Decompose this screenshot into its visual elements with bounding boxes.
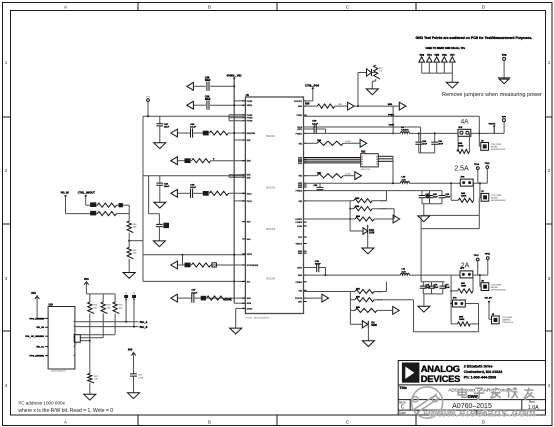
svg-text:3V3: 3V3 xyxy=(84,278,89,281)
capacitor C2 label xyxy=(205,96,211,102)
wire VOUT3 corner xyxy=(480,275,481,286)
capacitor C1 label xyxy=(205,77,211,83)
capacitor C17 xyxy=(420,282,427,294)
resistor R7 xyxy=(317,141,343,145)
svg-text:TP11: TP11 xyxy=(485,163,491,165)
svg-text:VREG: VREG xyxy=(247,105,253,107)
svg-text:4A: 4A xyxy=(460,119,469,126)
svg-text:SS12: SS12 xyxy=(247,193,252,195)
resistor R38 value xyxy=(338,104,342,106)
svg-text:EN3: EN3 xyxy=(247,161,251,163)
connector J4 label xyxy=(492,314,495,316)
ground U1 xyxy=(230,328,242,334)
capacitor C4 label xyxy=(190,123,196,129)
power VDD label xyxy=(31,292,36,295)
wire BST1 stub xyxy=(304,129,326,133)
svg-text:PVIN1: PVIN1 xyxy=(247,101,252,103)
svg-text:FB2: FB2 xyxy=(299,176,302,178)
inductor L1 xyxy=(400,132,409,134)
text 2.5A xyxy=(454,166,469,173)
wire rnet row1 xyxy=(80,334,115,336)
wire PGOOD row xyxy=(304,297,322,299)
resistor R6 xyxy=(374,65,380,79)
junction 4V5DL_VID xyxy=(233,77,235,79)
connector J4 xyxy=(492,316,500,324)
svg-text:VPG_SENSE3: VPG_SENSE3 xyxy=(29,318,44,320)
svg-text:0.1uF: 0.1uF xyxy=(138,377,144,379)
note GND test points xyxy=(416,36,533,40)
wire SW3 rail xyxy=(304,182,488,184)
svg-text:B: B xyxy=(208,5,211,10)
wire row B1 xyxy=(178,192,245,194)
junction CTRL_IN xyxy=(85,195,87,197)
test point TP16 xyxy=(132,293,136,300)
node VOUT1 label xyxy=(489,123,497,125)
wire fb return xyxy=(414,300,479,332)
note I2C address xyxy=(18,400,65,405)
resistor R9 xyxy=(317,174,343,178)
wire SW1 cont xyxy=(354,105,399,107)
inductor L3 label xyxy=(402,269,407,274)
resistor R26 label xyxy=(94,376,99,381)
resistor R12 label xyxy=(355,205,360,208)
resistor R11 xyxy=(350,199,372,203)
junction C11 xyxy=(434,132,436,134)
title block frame xyxy=(398,361,545,416)
node PWR_ON label xyxy=(140,326,148,329)
resistor R19 row xyxy=(97,203,129,207)
junction chain branch xyxy=(128,240,130,242)
resistor R38 xyxy=(317,104,334,108)
resistor R20 row xyxy=(97,212,129,216)
resistor R20 label xyxy=(90,211,96,216)
U1 left pins xyxy=(242,101,259,311)
wire R11 tail xyxy=(372,191,386,201)
wire TP1 drop xyxy=(147,102,149,117)
wire R12 tail xyxy=(372,209,394,219)
connector J3 text xyxy=(491,284,506,291)
svg-text:3V3: 3V3 xyxy=(128,348,133,351)
wire rail low xyxy=(143,280,245,282)
watermark stamp circle xyxy=(412,387,443,418)
ground C5 xyxy=(154,202,166,208)
watermark CJK characters xyxy=(458,387,534,398)
op-amp U3 body xyxy=(48,307,75,370)
capacitor C9 label xyxy=(312,121,318,126)
svg-text:ADP5054ACPZ: ADP5054ACPZ xyxy=(254,316,270,319)
junction TP1-rail xyxy=(147,115,149,117)
svg-text:SW2: SW2 xyxy=(298,163,302,165)
svg-text:CTRL_PG4: CTRL_PG4 xyxy=(305,84,320,88)
text 4A xyxy=(460,119,469,126)
capacitor C17 label xyxy=(425,285,430,290)
port arrow PGOOD xyxy=(322,294,329,302)
svg-text:47uF: 47uF xyxy=(433,195,438,198)
capacitor C18 label xyxy=(434,285,439,290)
resistor R18 row xyxy=(350,308,392,312)
node CTRL_IN label xyxy=(78,191,96,195)
port arrow SW1a xyxy=(348,102,355,110)
svg-text:10K: 10K xyxy=(94,379,98,381)
node SW1 label xyxy=(388,104,393,106)
power V3P3 label xyxy=(84,278,89,281)
svg-text:D: D xyxy=(482,419,485,424)
capacitor C16 label xyxy=(315,260,321,266)
wire BST4 stub xyxy=(304,268,326,276)
svg-text:A: A xyxy=(64,419,67,424)
jumper JP4 label xyxy=(453,298,458,300)
svg-text:TP8: TP8 xyxy=(502,54,507,57)
connector J3 xyxy=(481,283,489,291)
wire R16 tail xyxy=(374,282,386,292)
node PG_IN label xyxy=(61,191,69,195)
junction T1-bus xyxy=(233,85,235,87)
resistor R13 label xyxy=(356,216,361,218)
resistor R5 label xyxy=(201,296,206,301)
op-amp U2 body xyxy=(361,154,379,167)
wire pin to bus low xyxy=(234,302,245,304)
svg-text:EN5: EN5 xyxy=(247,177,251,179)
svg-text:VDRV: VDRV xyxy=(247,254,253,256)
svg-text:0.1uF: 0.1uF xyxy=(190,127,196,129)
wire TP9 xyxy=(503,122,505,134)
resistor R2 label xyxy=(185,158,191,163)
resistor R3 xyxy=(209,191,228,195)
wire IC agnd xyxy=(236,308,246,328)
svg-text:PG_IN: PG_IN xyxy=(61,191,69,195)
U1 right pins xyxy=(294,101,307,304)
resistor R25 label xyxy=(119,305,124,310)
test point TP9 xyxy=(502,119,505,122)
U3 refdes xyxy=(49,303,54,306)
svg-text:TP13: TP13 xyxy=(485,254,491,256)
wire U2 out riser xyxy=(392,156,394,183)
svg-text:COMP3: COMP3 xyxy=(295,219,302,221)
resistor R19b label xyxy=(459,316,465,321)
watermark url xyxy=(427,408,536,420)
wire FB1S sense xyxy=(304,126,421,128)
wire bus stub pin xyxy=(234,139,245,141)
capacitor C11 xyxy=(431,133,438,153)
svg-text:47uF: 47uF xyxy=(445,286,450,289)
resistor R8 xyxy=(457,149,470,153)
junction low-bus xyxy=(233,280,235,282)
wire cap gnd bus ch2 xyxy=(422,204,442,216)
svg-text:10.0K: 10.0K xyxy=(345,174,351,176)
resistor R23 xyxy=(88,294,94,374)
jumper JP1 xyxy=(458,129,471,136)
junction C16-rail xyxy=(325,274,327,276)
svg-text:PVIN1: PVIN1 xyxy=(388,114,395,116)
ground chain xyxy=(123,273,135,279)
jumper JP2 xyxy=(460,179,473,186)
resistor R18 label xyxy=(356,307,361,309)
inductor L3 xyxy=(400,273,409,275)
svg-text:www.elecfans.com: www.elecfans.com xyxy=(427,408,536,420)
capacitor C4 xyxy=(191,128,193,137)
svg-text:10K: 10K xyxy=(93,307,97,309)
svg-text:10K: 10K xyxy=(133,227,137,229)
svg-text:5.6V: 5.6V xyxy=(369,232,374,235)
resistor R21 xyxy=(127,221,133,233)
svg-text:2 Elizabeth Drive: 2 Elizabeth Drive xyxy=(464,364,493,368)
svg-text:PGND1: PGND1 xyxy=(296,133,303,135)
title label xyxy=(399,386,407,390)
document number xyxy=(452,403,492,410)
wire TP10 drop xyxy=(477,170,479,184)
svg-text:FB1: FB1 xyxy=(299,143,302,145)
svg-text:BUCK1: BUCK1 xyxy=(267,134,276,138)
svg-text:0.1uF: 0.1uF xyxy=(312,123,318,125)
wire VIN bus vertical xyxy=(233,78,235,303)
wire chain tail xyxy=(128,259,130,273)
resistor R13 xyxy=(355,217,374,221)
wire chain mid xyxy=(128,233,130,248)
resistor R2 xyxy=(192,159,211,163)
port arrow COMP xyxy=(393,215,400,223)
capacitor C5 label xyxy=(164,183,170,189)
resistor R10 loop xyxy=(450,182,473,200)
capacitor C13 label xyxy=(425,194,430,199)
port arrow FB1 xyxy=(360,139,367,147)
test point TP14 xyxy=(485,297,493,303)
svg-text:SW3: SW3 xyxy=(298,187,302,189)
svg-text:SS3: SS3 xyxy=(247,222,251,224)
svg-text:DNI: DNI xyxy=(338,104,342,106)
svg-text:PGOOD: PGOOD xyxy=(295,298,303,300)
wire PWR_ON xyxy=(75,326,139,328)
wire FB2 row xyxy=(304,175,355,177)
svg-text:10.0K: 10.0K xyxy=(377,300,383,302)
svg-text:TSW-102-07: TSW-102-07 xyxy=(502,322,514,324)
capacitor C11 label xyxy=(438,140,443,146)
diode D1 wire xyxy=(372,72,376,74)
junction C1-bus xyxy=(233,254,235,256)
wire FB4 stub xyxy=(304,291,356,293)
resistor R23 label xyxy=(93,305,98,310)
test point TP12 xyxy=(474,255,480,261)
svg-text:3V3: 3V3 xyxy=(31,292,36,295)
wire T1 xyxy=(194,85,234,87)
connector J1 text xyxy=(491,144,506,151)
svg-text:HS_BT: HS_BT xyxy=(485,297,493,299)
wire bus stub pin200 xyxy=(234,200,245,202)
capacitor C21 label xyxy=(138,375,144,380)
svg-text:22uF: 22uF xyxy=(164,127,170,129)
capacitor C19 xyxy=(439,282,446,294)
svg-text:PG34: PG34 xyxy=(297,226,302,228)
wire C7 branch xyxy=(149,176,160,214)
capacitor C15 xyxy=(439,191,446,204)
svg-text:SCL: SCL xyxy=(247,281,251,283)
capacitor C6 xyxy=(191,189,193,198)
jumper JP1 label xyxy=(458,127,463,129)
wire PGND4 left rail xyxy=(421,229,444,282)
U1 bracket pins EN xyxy=(229,175,245,178)
U3 pin numbers xyxy=(73,321,74,356)
node FB1S label xyxy=(389,125,395,127)
svg-text:C: C xyxy=(346,5,349,10)
ground C7 xyxy=(153,241,165,247)
svg-text:AVIN: AVIN xyxy=(247,302,252,305)
capacitor C2 xyxy=(207,101,209,110)
port arrow P4 xyxy=(171,157,178,165)
wire PWR_FLT xyxy=(75,321,139,323)
capacitor C1 xyxy=(207,82,209,91)
svg-text:BUCK2: BUCK2 xyxy=(267,186,276,190)
resistor R22 label xyxy=(133,250,138,255)
wire TP8 to ground xyxy=(503,60,505,78)
ground for TP bus xyxy=(446,82,458,88)
wire left rail vertical xyxy=(142,116,144,281)
resistor R4 xyxy=(192,263,211,267)
capacitor C18 xyxy=(428,282,435,294)
svg-text:GRN: GRN xyxy=(371,324,377,327)
svg-text:VPG_SENSE5: VPG_SENSE5 xyxy=(29,356,44,358)
svg-text:FB4: FB4 xyxy=(299,290,302,292)
capacitor C16 xyxy=(317,263,319,272)
svg-text:U1: U1 xyxy=(246,93,250,97)
capacitor C9 xyxy=(314,124,316,133)
svg-text:ADM1166ACPZ: ADM1166ACPZ xyxy=(51,370,66,373)
svg-text:100K: 100K xyxy=(461,286,466,288)
node PWR_FLT label xyxy=(140,321,148,324)
wire row A1 xyxy=(178,132,245,134)
capacitor C21 xyxy=(130,374,137,393)
LED D2 label xyxy=(371,322,377,328)
wire T2 xyxy=(194,104,245,106)
wire VOUT1 top corner xyxy=(478,116,480,146)
svg-text:TP12: TP12 xyxy=(474,255,480,257)
wire SDA tp drop xyxy=(125,299,127,322)
op-amp U1 body xyxy=(245,97,303,314)
ferrite FB2 xyxy=(119,203,123,207)
svg-text:SS4: SS4 xyxy=(247,239,251,241)
jumper JP4 xyxy=(453,300,466,307)
svg-text:VDL_HC_SENSE2: VDL_HC_SENSE2 xyxy=(25,336,44,338)
svg-text:GND Test Points are scattered: GND Test Points are scattered on PCB for… xyxy=(416,36,533,40)
note used on all TPs xyxy=(426,47,466,50)
resistor network box xyxy=(74,335,80,346)
connector J1 xyxy=(481,143,489,151)
resistor R2 value xyxy=(213,158,215,160)
wire fb riser xyxy=(349,292,351,311)
resistor R8 label xyxy=(458,142,463,148)
resistor R11 label xyxy=(355,197,360,200)
junction SDA xyxy=(125,321,127,323)
port arrow FB2 xyxy=(355,172,362,180)
svg-text:0039281023-ND: 0039281023-ND xyxy=(491,149,506,151)
test point TP9 label xyxy=(502,116,507,118)
wire SW4 rail xyxy=(304,274,488,276)
port arrow P1 xyxy=(187,82,194,90)
sheet title xyxy=(448,388,517,400)
svg-text:PVIN3: PVIN3 xyxy=(247,118,252,120)
junction A1-bus xyxy=(233,132,235,134)
svg-text:TP10: TP10 xyxy=(474,164,480,166)
wire row C1 xyxy=(178,264,245,266)
power VCAP label xyxy=(128,348,133,351)
svg-text:A: A xyxy=(64,5,67,10)
svg-text:PAL_A: PAL_A xyxy=(140,321,148,324)
svg-text:COMP4: COMP4 xyxy=(295,222,302,224)
wire LED branch xyxy=(350,310,362,324)
wire R26 tail xyxy=(89,383,91,394)
U1 bracket pins PVIN xyxy=(229,115,245,121)
ferrite bead FB1 xyxy=(212,263,217,267)
port arrow P7 xyxy=(171,294,178,302)
wire PVIN1 rail xyxy=(304,115,480,117)
junction B1-bus xyxy=(233,175,235,177)
svg-text:VOS1: VOS1 xyxy=(389,125,395,127)
node PVIN1 label xyxy=(388,114,395,116)
wire comp stub2 xyxy=(304,218,356,220)
wire SW1 to L1 xyxy=(392,106,394,134)
svg-text:Title: Title xyxy=(399,386,407,390)
junction SCL xyxy=(133,326,135,328)
wire JP4 feed xyxy=(450,275,452,324)
jumper JP3 label xyxy=(460,268,465,270)
resistor R9 value xyxy=(345,174,351,176)
U2 pin numbers xyxy=(361,156,377,164)
resistor R12 value xyxy=(381,209,387,211)
resistor R5 xyxy=(207,296,226,300)
svg-text:0.56uH: 0.56uH xyxy=(401,130,409,132)
svg-text:D: D xyxy=(482,5,485,10)
connector J1 label xyxy=(481,140,484,142)
resistor R16 value xyxy=(377,292,383,294)
connector J3 label xyxy=(481,280,484,282)
svg-text:47uF: 47uF xyxy=(438,142,443,145)
svg-text:47uF: 47uF xyxy=(422,142,427,145)
text 2A xyxy=(461,262,470,269)
wire gnd test point bus xyxy=(422,73,453,82)
power V3P3 arrow xyxy=(84,282,88,294)
resistor R8 loop xyxy=(458,133,469,151)
resistor R38 label xyxy=(305,103,310,106)
svg-text:47uF: 47uF xyxy=(445,195,450,198)
wire VOUT1 tag xyxy=(493,125,495,133)
svg-text:VID_S4: VID_S4 xyxy=(36,326,44,329)
U2 refdes xyxy=(361,152,366,154)
svg-text:PAL_B: PAL_B xyxy=(140,326,148,329)
capacitor C8 label xyxy=(192,289,198,295)
wire D3 to gnd xyxy=(367,234,369,248)
capacitor C19 label xyxy=(445,285,450,290)
wire SW1 snubber riser xyxy=(357,73,359,107)
wire rail VIN2 xyxy=(143,175,245,177)
svg-text:0.1uF: 0.1uF xyxy=(315,264,321,266)
wire rail VIN1 xyxy=(143,115,245,117)
resistor R4 label xyxy=(185,263,191,268)
junction CTRL_PG xyxy=(312,87,314,89)
svg-text:10K: 10K xyxy=(133,253,137,255)
svg-text:0039281023-ND: 0039281023-ND xyxy=(491,200,506,202)
ground ch2 xyxy=(418,216,430,222)
svg-text:2.5A: 2.5A xyxy=(454,166,469,173)
svg-text:VREG2: VREG2 xyxy=(296,244,302,246)
wire cap gnd bus ch1 xyxy=(419,127,435,153)
resistor R10 label xyxy=(461,192,467,198)
svg-text:BUCK3: BUCK3 xyxy=(267,227,276,231)
resistor R1 xyxy=(209,131,228,135)
capacitor C8 xyxy=(192,294,194,303)
svg-text:SYNC: SYNC xyxy=(225,298,232,301)
svg-text:10K: 10K xyxy=(107,307,111,309)
wire CTRL_PG to pin xyxy=(304,88,313,101)
junction VOUT2 xyxy=(479,182,481,184)
test point TP15 xyxy=(124,293,128,300)
